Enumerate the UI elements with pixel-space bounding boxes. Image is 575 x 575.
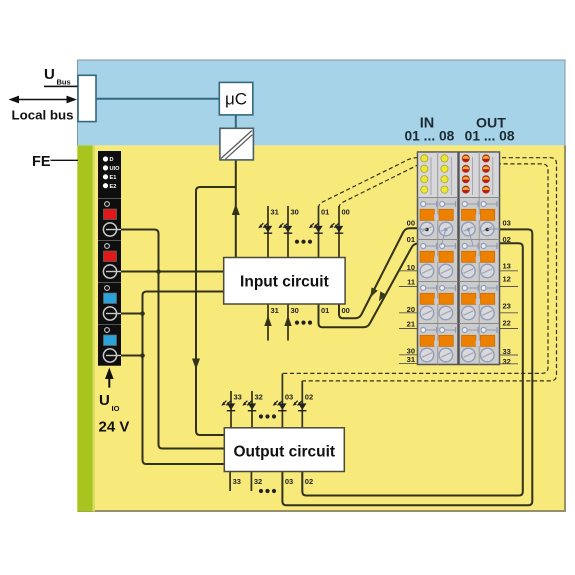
svg-text:31: 31	[271, 208, 279, 217]
wire local bus to microcontroller	[96, 98, 219, 100]
OUT terminal block	[459, 152, 500, 365]
svg-text:12: 12	[503, 275, 511, 284]
svg-text:D: D	[110, 157, 114, 163]
opto LED on input line x=268	[258, 223, 272, 233]
wire 24V terminal 2 to Input circuit	[121, 271, 224, 273]
panel border yellow part	[78, 145, 566, 511]
wire GND terminal 4	[121, 355, 143, 357]
svg-text:23: 23	[503, 302, 511, 311]
junction terminal 4	[140, 353, 145, 358]
input field line 30 below box	[287, 304, 289, 341]
svg-text:33: 33	[234, 393, 242, 402]
arrow up into isolator	[232, 204, 240, 215]
svg-text:31: 31	[271, 306, 279, 315]
ellipsis input top	[295, 240, 312, 244]
svg-text:01 ... 08: 01 ... 08	[465, 128, 515, 143]
label U Bus	[44, 66, 78, 87]
svg-text:31: 31	[407, 355, 415, 364]
wire input channel 00 to IN terminal	[339, 228, 419, 318]
input field line 31 below box	[267, 304, 269, 341]
wire output channel 02 to OUT terminal	[302, 243, 523, 495]
input sense line 30 above Input circuit	[287, 206, 289, 258]
svg-text:33: 33	[233, 477, 241, 486]
arrow down to Output circuit	[192, 359, 200, 370]
svg-text:IO: IO	[112, 404, 120, 413]
opto LED on output line x=231	[221, 401, 235, 411]
wire isolator branch to Output circuit	[196, 187, 236, 435]
wire microcontroller to isolator	[235, 115, 237, 128]
svg-text:22: 22	[503, 319, 511, 328]
svg-text:Input circuit: Input circuit	[240, 274, 329, 291]
svg-text:02: 02	[503, 235, 511, 244]
svg-text:01: 01	[407, 235, 415, 244]
IN terminal block	[418, 152, 459, 365]
svg-text:Output circuit: Output circuit	[233, 444, 335, 461]
arrow up line 31	[264, 316, 271, 327]
opto LED on output line x=252	[242, 401, 256, 411]
wire output channel 03 to OUT terminal	[282, 229, 532, 505]
svg-text:Local bus: Local bus	[12, 108, 74, 123]
panel border blue part	[78, 60, 566, 145]
dashed net: input channel 01 to output channel 02 (outer loop)	[302, 158, 556, 381]
svg-text:03: 03	[285, 477, 293, 486]
FE connection line	[51, 159, 79, 161]
opto LED on output line x=302.3	[293, 401, 307, 411]
svg-text:E2: E2	[110, 184, 117, 190]
opto LED on input line x=318.5	[309, 223, 323, 233]
svg-text:02: 02	[305, 393, 313, 402]
output line 03 above box	[281, 373, 283, 427]
svg-text:30: 30	[291, 208, 299, 217]
supply terminal strip	[98, 151, 121, 366]
I/O area (yellow background)	[77, 145, 566, 512]
junction terminal 3	[140, 311, 145, 316]
input sense line 31 above Input circuit	[267, 206, 269, 258]
Output circuit block	[224, 428, 344, 472]
svg-text:UIO: UIO	[110, 166, 121, 172]
svg-text:Bus: Bus	[57, 78, 71, 87]
wire isolator to Input circuit	[235, 160, 237, 258]
wire GND terminal 3	[121, 313, 143, 315]
ellipsis input bottom	[295, 321, 312, 325]
module status LEDs (D, UIO, E1, E2)	[103, 156, 120, 190]
wire input channel 01 to IN terminal	[319, 244, 419, 328]
output line 02 above box	[301, 381, 303, 428]
output field line 32 below box	[250, 472, 252, 492]
supply arrow U IO	[105, 368, 114, 388]
svg-text:32: 32	[503, 357, 511, 366]
wire 24V terminal 1 to Output circuit	[121, 230, 224, 449]
opto LED on input line x=288	[278, 223, 292, 233]
svg-text:FE: FE	[32, 154, 51, 170]
wire GND rail to Input and Output circuit	[143, 292, 225, 465]
local bus double arrow	[9, 96, 78, 104]
arrow on 00 wire	[367, 287, 378, 299]
svg-text:U: U	[99, 392, 110, 409]
svg-text:11: 11	[407, 278, 415, 287]
supply terminals (2x 24V red, 2x GND blue)	[98, 199, 121, 363]
svg-text:01 ... 08: 01 ... 08	[404, 128, 454, 143]
local bus connector	[78, 75, 96, 121]
FE rail (green strip)	[78, 145, 96, 511]
svg-text:30: 30	[291, 306, 299, 315]
svg-text:32: 32	[255, 393, 263, 402]
microcontroller U1 (uC)	[219, 82, 253, 115]
Input circuit block	[224, 258, 345, 305]
svg-text:E1: E1	[110, 175, 117, 181]
ellipsis output bottom	[259, 489, 276, 493]
dashed net: input channel 00 to output channel 03 (inner loop)	[282, 164, 548, 374]
svg-text:μC: μC	[225, 90, 247, 109]
svg-text:00: 00	[342, 208, 350, 217]
svg-text:01: 01	[321, 306, 329, 315]
svg-text:03: 03	[503, 219, 511, 228]
arrow on 01 wire	[376, 291, 387, 303]
opto LED on input line x=339	[329, 223, 343, 233]
svg-text:01: 01	[321, 208, 329, 217]
svg-text:03: 03	[285, 393, 293, 402]
opto LED on output line x=282.4	[273, 401, 287, 411]
input sense line 01 above Input circuit	[318, 206, 320, 258]
arrow up line 30	[284, 316, 291, 327]
svg-text:02: 02	[305, 477, 313, 486]
output line 33 above box	[230, 391, 232, 428]
junction terminal 1/2	[156, 269, 161, 274]
output field line 33 below box	[229, 472, 231, 492]
svg-text:U: U	[44, 66, 55, 83]
svg-text:32: 32	[254, 477, 262, 486]
local bus area (blue background)	[77, 60, 566, 146]
label U IO	[99, 392, 120, 413]
svg-text:00: 00	[407, 219, 415, 228]
svg-text:00: 00	[342, 306, 350, 315]
ellipsis output top	[259, 414, 276, 418]
svg-text:13: 13	[503, 262, 511, 271]
input sense line 00 above Input circuit	[338, 206, 340, 258]
galvanic isolator (DC/DC)	[220, 128, 254, 160]
output line 32 above box	[251, 391, 253, 428]
svg-text:21: 21	[407, 320, 415, 329]
svg-text:24 V: 24 V	[99, 419, 130, 436]
